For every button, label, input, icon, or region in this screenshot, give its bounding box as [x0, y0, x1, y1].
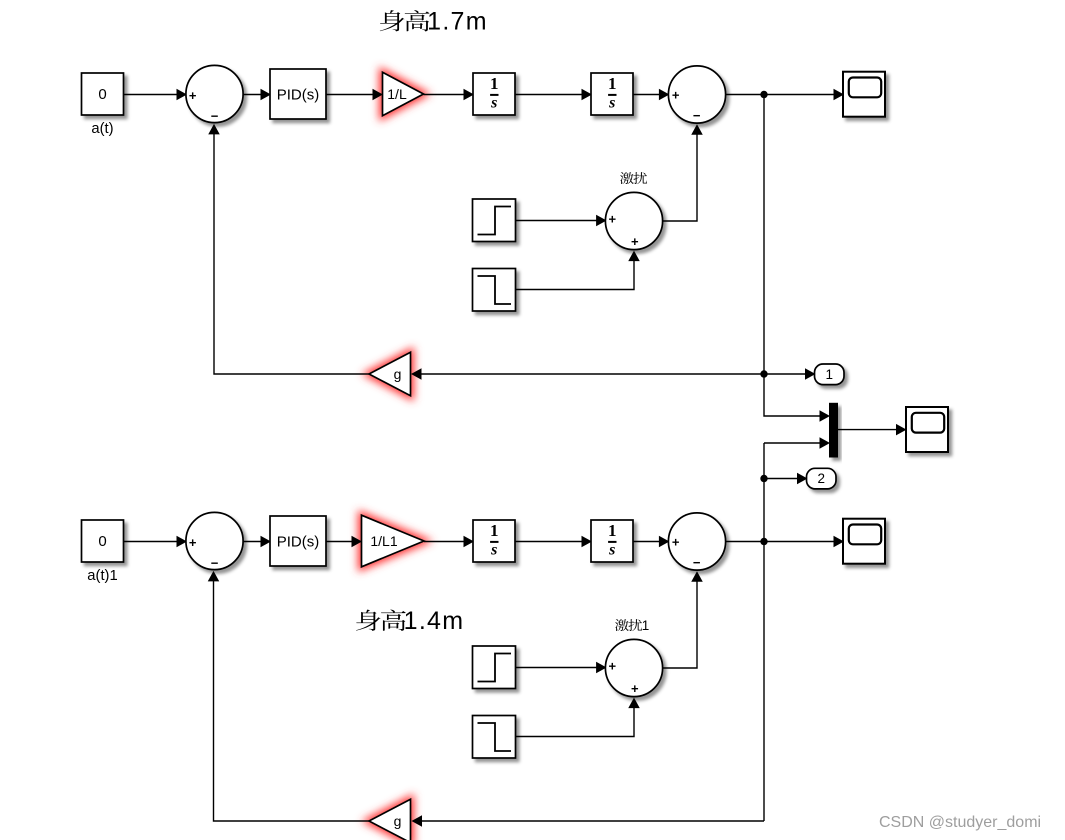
wire PID to gain: [326, 89, 383, 101]
wire to mux input 2: [764, 437, 830, 449]
annotation title 身高1.7m: [380, 8, 488, 36]
svg-text:−: −: [693, 555, 701, 570]
integrator 1/s second: [591, 73, 633, 115]
label 激扰1: [615, 618, 649, 633]
feedback gain g1 (highlighted): [369, 799, 411, 840]
glow of feedback gain g: [369, 352, 411, 395]
disturbance sum 激扰1: [605, 639, 662, 696]
svg-text:1: 1: [825, 367, 833, 382]
wire junction down to feedback: [763, 542, 765, 822]
wire PID to gain: [326, 536, 362, 548]
svg-text:g: g: [394, 813, 402, 829]
svg-text:1/L1: 1/L1: [370, 533, 397, 549]
outport 1: [815, 364, 845, 385]
sum block S5: [668, 513, 725, 570]
svg-text:g: g: [394, 366, 402, 382]
junction: [760, 370, 767, 377]
svg-text:CSDN @studyer_domi: CSDN @studyer_domi: [879, 814, 1041, 831]
wire sum to PID: [243, 536, 271, 548]
wire integrator to sum: [633, 536, 669, 548]
svg-text:PID(s): PID(s): [277, 87, 320, 104]
svg-text:2: 2: [817, 471, 825, 486]
glow of gain 1/L: [383, 72, 424, 115]
svg-text:+: +: [672, 88, 680, 103]
wire step to disturbance sum: [516, 662, 607, 674]
wire gain to integrator: [424, 536, 474, 548]
svg-text:+: +: [609, 212, 617, 227]
wire disturbance sum to main sum: [663, 124, 703, 221]
scope block: [843, 72, 885, 117]
wire to feedback gain g1: [412, 815, 765, 827]
label 激扰: [620, 172, 647, 184]
junction: [760, 538, 767, 545]
constant block 0 / a(t): [82, 73, 124, 137]
wire sum to scope: [726, 89, 844, 101]
scope mux display block: [906, 407, 948, 452]
svg-text:+: +: [631, 234, 639, 249]
wire feedback gain g to sum: [208, 124, 369, 374]
glow of feedback gain g1: [369, 799, 411, 840]
gain block 1/L (highlighted): [383, 72, 424, 115]
wire junction down: [763, 95, 765, 375]
svg-text:+: +: [631, 681, 639, 696]
svg-text:1: 1: [608, 521, 617, 540]
wire sum to scope: [726, 536, 844, 548]
svg-text:1.7m: 1.7m: [427, 8, 488, 36]
wire feedback gain g1 to sum: [208, 571, 369, 821]
junction: [760, 475, 767, 482]
svg-text:s: s: [608, 95, 615, 112]
wire to mux input 1: [764, 374, 830, 422]
svg-text:+: +: [189, 535, 197, 550]
svg-text:1.4m: 1.4m: [404, 607, 465, 635]
wire constant to sum: [124, 89, 188, 101]
wire gain to integrator: [424, 89, 475, 101]
svg-text:PID(s): PID(s): [277, 534, 320, 551]
PID controller PID(s): [270, 69, 326, 119]
wire to outport 2: [764, 473, 808, 485]
svg-text:1: 1: [490, 74, 499, 93]
glow of gain 1/L1: [362, 515, 425, 567]
wire to outport 1: [764, 368, 816, 380]
mux block: [829, 403, 838, 458]
wire step to disturbance sum bottom: [516, 698, 640, 737]
sum block S4: [186, 512, 243, 570]
wire junction up: [763, 443, 765, 542]
svg-text:+: +: [609, 659, 617, 674]
svg-text:1: 1: [490, 521, 499, 540]
wire integrator to integrator: [515, 536, 592, 548]
svg-text:−: −: [211, 109, 219, 124]
svg-text:1: 1: [608, 74, 617, 93]
step block (down) loop2: [473, 716, 516, 759]
svg-text:s: s: [490, 542, 497, 559]
svg-text:0: 0: [98, 533, 106, 550]
svg-text:1/L: 1/L: [387, 86, 407, 102]
wire integrator to sum: [633, 89, 669, 101]
svg-text:+: +: [189, 88, 197, 103]
wire disturbance sum to main sum: [663, 571, 703, 668]
svg-text:−: −: [693, 108, 701, 123]
svg-text:a(t)1: a(t)1: [87, 568, 117, 584]
svg-text:s: s: [490, 95, 497, 112]
step block (up) loop2: [473, 646, 516, 689]
PID controller PID(s)1: [270, 516, 326, 566]
disturbance sum 激扰: [605, 192, 662, 249]
sum block S2: [668, 66, 725, 123]
junction: [760, 91, 767, 98]
svg-text:1: 1: [642, 618, 650, 633]
svg-text:+: +: [672, 535, 680, 550]
svg-text:−: −: [211, 556, 219, 571]
scope1 block: [843, 519, 885, 564]
annotation title 身高1.4m: [356, 607, 464, 635]
svg-text:0: 0: [98, 86, 106, 103]
wire integrator to integrator: [515, 89, 592, 101]
step block (down): [473, 269, 516, 312]
feedback gain g (highlighted): [369, 352, 411, 395]
integrator 1/s (loop 2): [473, 520, 515, 562]
wire mux to scope: [838, 429, 897, 431]
wire sum to PID: [243, 89, 271, 101]
integrator 1/s second (loop 2): [591, 520, 633, 562]
wire step to disturbance sum: [516, 215, 607, 227]
wire to feedback gain g: [411, 368, 764, 380]
outport 2: [807, 468, 837, 489]
step block (up): [473, 199, 516, 242]
wire step to disturbance sum bottom: [516, 251, 640, 290]
integrator 1/s: [473, 73, 515, 115]
wire constant1 to sum: [124, 536, 188, 548]
sum block S1: [186, 65, 243, 123]
gain block 1/L1 (highlighted): [362, 515, 425, 567]
svg-text:s: s: [608, 542, 615, 559]
svg-text:a(t): a(t): [91, 121, 113, 137]
constant block 0 / a(t)1: [82, 520, 124, 584]
